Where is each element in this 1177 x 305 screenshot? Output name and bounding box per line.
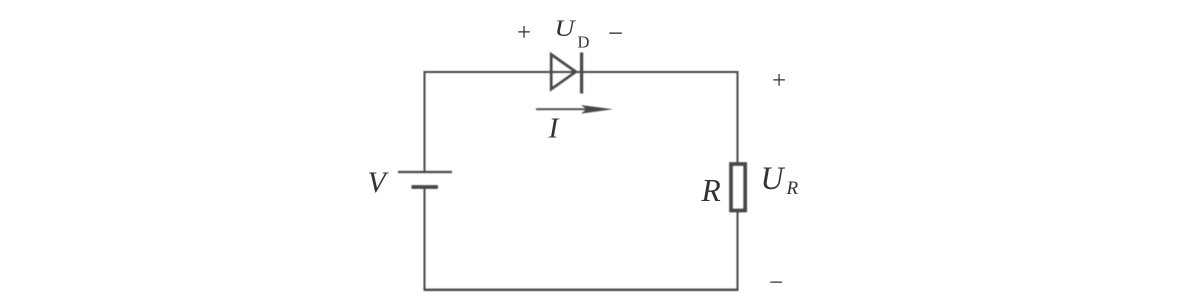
svg-text:R: R — [701, 173, 721, 208]
svg-text:R: R — [786, 178, 799, 199]
svg-text:+: + — [517, 20, 531, 47]
svg-text:U: U — [761, 161, 786, 197]
svg-text:D: D — [578, 33, 590, 52]
svg-text:+: + — [772, 68, 786, 95]
svg-text:U: U — [555, 16, 577, 42]
svg-text:−: − — [608, 18, 623, 48]
svg-text:I: I — [548, 113, 560, 145]
svg-text:−: − — [769, 270, 783, 297]
svg-text:V: V — [368, 166, 390, 199]
